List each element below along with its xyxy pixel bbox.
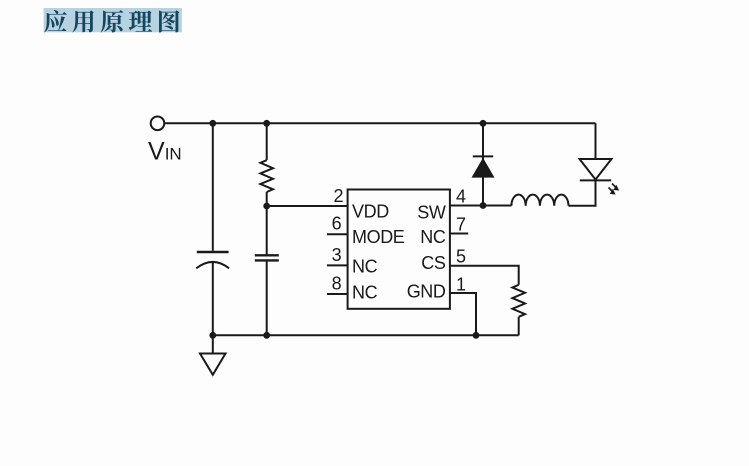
svg-text:GND: GND: [407, 281, 446, 301]
svg-text:8: 8: [332, 274, 342, 294]
svg-text:7: 7: [456, 215, 466, 235]
wire R1 to C2: [266, 192, 268, 255]
wire SW pin4 to inductor: [450, 205, 512, 207]
svg-text:VDD: VDD: [352, 201, 389, 221]
resistor R2: [512, 285, 525, 317]
wire CS pin5 to R2: [450, 266, 519, 285]
capacitor C2 bottom plate: [255, 259, 279, 261]
junction node top-mid: [263, 120, 270, 127]
VIN terminal circle: [151, 117, 165, 131]
wire top rail: [165, 122, 596, 124]
junction node bottom GND: [473, 332, 480, 339]
wire VDD pin2: [267, 205, 348, 207]
resistor R1: [260, 160, 273, 192]
diode D1 cathode bar: [473, 155, 493, 157]
LED emission arrow 2: [609, 188, 614, 193]
capacitor C1 curved plate: [196, 262, 229, 268]
inductor L1: [511, 195, 568, 206]
wire LED drop right: [595, 123, 597, 159]
title highlight: [44, 8, 182, 32]
diode D1 vertical wire: [482, 123, 484, 205]
LED D2 cathode bar: [580, 179, 611, 181]
svg-text:3: 3: [332, 245, 342, 265]
svg-text:2: 2: [333, 186, 343, 206]
svg-text:4: 4: [456, 187, 466, 207]
svg-text:VIN: VIN: [148, 137, 182, 165]
pin 3 stub: [327, 264, 348, 266]
svg-text:CS: CS: [421, 253, 446, 273]
ground symbol: [200, 354, 226, 375]
junction node top-left: [209, 120, 216, 127]
LED emission arrow 1: [609, 184, 619, 195]
junction node diode bottom / SW: [480, 202, 487, 209]
wire GND pin1: [450, 293, 476, 335]
svg-text:5: 5: [456, 247, 466, 267]
junction node diode top: [480, 120, 487, 127]
wire R1 branch top: [266, 123, 268, 160]
wire R2 to bottom rail: [518, 317, 520, 336]
title text 应用原理图: [44, 10, 179, 33]
svg-text:NC: NC: [352, 257, 378, 277]
junction node bottom-left: [209, 332, 216, 339]
wire bottom rail: [213, 334, 519, 336]
wire ground stub: [212, 335, 214, 353]
svg-text:NC: NC: [420, 227, 446, 247]
wire C1 to bottom rail: [212, 263, 214, 336]
pin 8 stub: [327, 293, 348, 295]
junction node VDD: [263, 203, 270, 210]
wire VIN branch x=212 upper: [212, 123, 214, 250]
capacitor C2 top plate: [255, 254, 279, 256]
junction node bottom-mid: [263, 332, 270, 339]
wire C2 to bottom rail: [266, 260, 268, 335]
pin 7 stub: [450, 233, 468, 235]
LED D2 triangle: [580, 159, 612, 180]
svg-text:NC: NC: [352, 283, 378, 303]
pin 6 stub: [327, 233, 348, 235]
wire LED bottom to inductor: [569, 181, 596, 206]
svg-text:MODE: MODE: [352, 227, 405, 247]
diode D1 arrow fill: [472, 158, 495, 178]
capacitor C1 top plate: [197, 251, 229, 254]
IC U1 body: [348, 190, 450, 309]
svg-text:1: 1: [456, 275, 466, 295]
svg-text:SW: SW: [417, 202, 446, 222]
svg-text:6: 6: [332, 214, 342, 234]
